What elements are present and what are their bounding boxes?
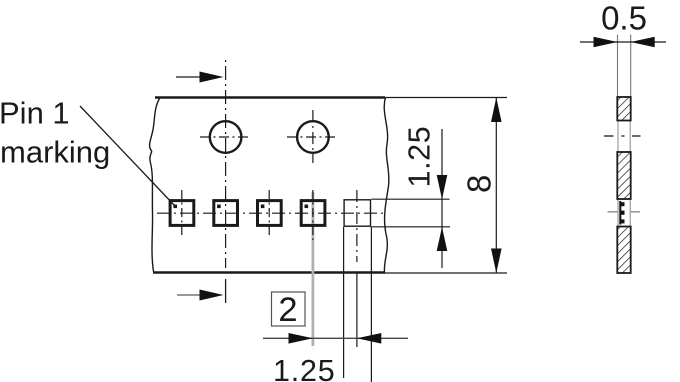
pocket 1 pin-1 dot (173, 205, 177, 209)
side sprocket hole centerline (604, 135, 614, 137)
pocket 3 pin-1 dot (261, 205, 265, 209)
8 dimension line (495, 98, 497, 274)
pocket 1 (170, 201, 194, 226)
vertical 1.25 up arrow (437, 227, 448, 251)
pocket 5 left edge extension down (343, 227, 345, 378)
bottom dim right-pointing arrow (289, 333, 313, 344)
boxed 2 label frame (272, 292, 306, 326)
sprocket hole 2 (297, 121, 329, 153)
pocket 5 right edge extension down (370, 227, 372, 382)
8 dim bottom arrow (491, 249, 502, 274)
side view hatched section middle (617, 152, 630, 199)
side gap thin edges (pocket) (617, 199, 619, 227)
pocket 2 pin-1 dot (217, 205, 221, 209)
side strip left extension line up (617, 35, 619, 98)
side pocket centerline (gray) (608, 211, 618, 213)
bottom dim left-pointing arrow (357, 333, 381, 344)
sprocket/pocket-2 long vertical centerline (225, 60, 227, 268)
right break line (wavy) (384, 98, 389, 273)
side view hatched section bottom (617, 227, 630, 274)
svg-text:1.25: 1.25 (273, 354, 336, 382)
gray section line below pocket 4 (311, 192, 314, 346)
svg-text:0.5: 0.5 (601, 0, 647, 37)
0.5 left-pointing arrow (631, 37, 655, 48)
bottom feed arrow tail (gray) (177, 294, 202, 296)
tape top edge (155, 96, 385, 99)
leader line to pin-1 dot (80, 106, 175, 206)
0.5 right-pointing arrow (594, 37, 618, 48)
8 dim top arrow (491, 98, 502, 123)
sprocket 2 horizontal centerline (287, 136, 338, 138)
top feed arrow (200, 72, 224, 83)
centerline segment below tape for bottom arrow (225, 279, 227, 303)
svg-text:Pin 1: Pin 1 (0, 96, 70, 131)
sprocket hole 1 (210, 121, 242, 153)
bottom feed arrow (200, 290, 224, 301)
svg-text:1.25: 1.25 (403, 126, 437, 188)
pocket 3 (258, 201, 282, 226)
pocket 4 vertical centerline (312, 190, 314, 240)
pocket 4 pin-1 dot (305, 205, 309, 209)
component in pocket (side view) (619, 201, 621, 225)
pocket 5 bottom edge extension right (371, 226, 450, 228)
side gap thin edges (sprocket hole) (617, 121, 619, 153)
sprocket 1 horizontal centerline (200, 136, 251, 138)
vertical 1.25 dimension line (441, 129, 443, 268)
vertical 1.25 down arrow (437, 175, 448, 199)
pocket 5 (thin outline) (344, 200, 370, 226)
pocket 2 (214, 201, 238, 226)
top feed arrow tail (176, 76, 201, 78)
tape bottom edge (153, 271, 385, 274)
pocket 5 top edge extension right (371, 198, 449, 200)
svg-text:8: 8 (461, 175, 498, 193)
sprocket-2 vertical centerline (312, 110, 314, 163)
0.5 dimension line (580, 41, 666, 43)
pocket 4 (301, 201, 325, 226)
svg-text:marking: marking (0, 135, 110, 170)
bottom pitch dimension line (263, 337, 408, 339)
top edge thin extension to 8-dim (384, 97, 507, 99)
pocket horizontal centerline (157, 212, 385, 214)
svg-text:2: 2 (278, 291, 297, 329)
pocket 1 vertical centerline (181, 190, 183, 238)
pocket 5 vertical centerline (356, 190, 358, 262)
left break line (wavy) (150, 99, 160, 272)
side view hatched section top (617, 97, 630, 121)
bottom edge thin extension to 8-dim (384, 272, 507, 274)
pocket 3 vertical centerline (268, 190, 270, 238)
side strip right extension line up (630, 35, 632, 98)
